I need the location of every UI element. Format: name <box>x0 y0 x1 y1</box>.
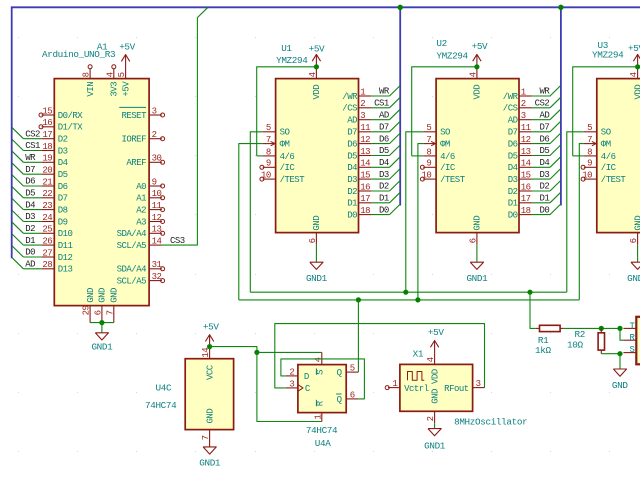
svg-text:D4: D4 <box>539 158 549 168</box>
pin 18 D3 of Arduino <box>42 150 55 152</box>
svg-text:GND1: GND1 <box>306 273 328 284</box>
pin 10 A1 of Arduino <box>149 197 162 199</box>
wire - net D2 from U2 pin 16 <box>532 190 550 192</box>
wire - net CS1 to Arduino pin 18 <box>23 150 41 152</box>
bus entry for net D2 at U2 <box>550 181 561 192</box>
svg-text:D2: D2 <box>539 182 549 192</box>
pin 4 Sbar preset of U4A <box>321 352 323 364</box>
svg-text:CS1: CS1 <box>25 141 40 151</box>
junction - output T node <box>617 326 622 331</box>
pin 1 /WR of U2 <box>519 95 532 97</box>
svg-text:D3: D3 <box>58 146 68 156</box>
bus - vertical bus between U1 and U2 <box>399 7 401 205</box>
svg-text:3: 3 <box>289 379 294 389</box>
svg-text:10: 10 <box>582 171 592 181</box>
svg-text:D6: D6 <box>508 140 518 150</box>
junction - +5V node at U3 <box>635 64 640 69</box>
svg-text:SCL/A5: SCL/A5 <box>117 241 147 251</box>
bus entry for net D4 at U1 <box>390 157 401 168</box>
svg-text:/WR: /WR <box>342 92 358 102</box>
wire - SO of U3 down to audio line <box>567 132 584 292</box>
pin 21 D6 of Arduino <box>42 185 55 187</box>
wire - SO of U1 down to audio line <box>250 132 262 292</box>
bus entry for net AD at U2 <box>550 109 561 120</box>
pin 6 Qbar of U4A <box>346 398 358 400</box>
svg-text:D9: D9 <box>58 217 68 227</box>
junction - R1 tap on audio line <box>527 290 532 295</box>
YMZ294 U1 body <box>276 79 359 233</box>
svg-text:8: 8 <box>82 72 92 77</box>
svg-text:3V3: 3V3 <box>110 82 120 97</box>
svg-text:7: 7 <box>105 310 115 315</box>
pin 22 D7 of Arduino <box>42 197 55 199</box>
svg-text:D6: D6 <box>347 140 357 150</box>
pin 27 D12 of Arduino <box>42 256 55 258</box>
svg-text:D2: D2 <box>58 135 68 145</box>
ground GND1 below U4C <box>203 447 216 454</box>
svg-text:2: 2 <box>426 416 436 421</box>
pin S sleeve of jack <box>623 352 636 354</box>
bus entry for net D6 <box>12 175 23 186</box>
pin 23 D8 of Arduino <box>42 209 55 211</box>
svg-text:18: 18 <box>521 206 531 216</box>
svg-text:30: 30 <box>152 154 162 164</box>
svg-text:CS2: CS2 <box>535 99 550 109</box>
svg-text:D10: D10 <box>58 229 73 239</box>
svg-text:29: 29 <box>82 305 92 315</box>
svg-text:3: 3 <box>521 111 526 121</box>
svg-text:13: 13 <box>521 147 531 157</box>
bus entry for net AD at U1 <box>390 109 401 120</box>
+5V power symbol at U3 VDD <box>637 54 639 66</box>
svg-text:18: 18 <box>360 206 370 216</box>
wire - R2 bottom to sleeve node <box>601 353 620 355</box>
svg-text:16: 16 <box>521 182 531 192</box>
svg-text:D13: D13 <box>58 265 73 275</box>
svg-text:GND: GND <box>633 216 640 231</box>
wire - Arduino GND to ground symbol <box>101 323 103 333</box>
svg-text:/IC: /IC <box>440 163 456 173</box>
svg-text:D0/RX: D0/RX <box>58 111 84 121</box>
wire - net D0 from U2 pin 18 <box>532 214 550 216</box>
svg-text:1: 1 <box>360 87 365 97</box>
svg-text:GND: GND <box>312 216 322 231</box>
wire - net D2 from U1 pin 16 <box>371 190 389 192</box>
pin 12 D6 of U2 <box>519 143 532 145</box>
svg-text:2: 2 <box>289 367 294 377</box>
svg-text:D3: D3 <box>379 170 389 180</box>
svg-text:YMZ294: YMZ294 <box>276 55 308 66</box>
pin 4 VDD of U2 <box>476 67 478 79</box>
pin 8 4/6 of U3 <box>584 155 597 157</box>
bus entry for net D3 at U2 <box>550 169 561 180</box>
bus entry for net D2 at U1 <box>390 181 401 192</box>
svg-text:X1: X1 <box>413 348 424 359</box>
wire - net AD from U1 pin 3 <box>371 119 389 121</box>
pin 18 D0 of U2 <box>519 214 532 216</box>
svg-text:D7: D7 <box>379 123 389 133</box>
wire - Arduino GND pins tied together <box>90 322 114 324</box>
svg-text:ΦM: ΦM <box>440 140 450 150</box>
svg-text:D2: D2 <box>508 187 518 197</box>
svg-text:21: 21 <box>42 177 52 187</box>
svg-text:7: 7 <box>201 435 211 440</box>
svg-text:74HC74: 74HC74 <box>145 400 177 411</box>
svg-text:9: 9 <box>152 177 157 187</box>
bus entry for net D0 at U1 <box>390 204 401 215</box>
svg-text:AREF: AREF <box>126 158 146 168</box>
pin 5 +5V <box>125 67 127 79</box>
svg-text:6: 6 <box>308 238 318 243</box>
pin 10 /TEST of U2 <box>423 178 436 180</box>
svg-text:/CS: /CS <box>503 104 518 114</box>
svg-text:24: 24 <box>42 213 52 223</box>
svg-text:15: 15 <box>521 171 531 181</box>
wire - net D0 to Arduino pin 27 <box>23 256 41 258</box>
svg-text:GND: GND <box>612 380 628 391</box>
svg-text:GND: GND <box>473 216 483 231</box>
ground GND1 below Arduino <box>95 333 108 340</box>
wire - net D1 from U2 pin 17 <box>532 202 550 204</box>
svg-text:4/6: 4/6 <box>601 152 616 162</box>
svg-text:AD: AD <box>347 116 357 126</box>
wire - output node to jack R pin <box>620 328 623 340</box>
bus entry for net D7 at U2 <box>550 121 561 132</box>
svg-text:A0: A0 <box>136 182 146 192</box>
pin 4 VDD of X1 <box>434 353 436 365</box>
junction - +5V node at U2 <box>474 64 479 69</box>
wire - net D6 from U1 pin 12 <box>371 143 389 145</box>
svg-text:D5: D5 <box>379 146 389 156</box>
U4C 74HC74 body <box>185 359 233 430</box>
pin 7 GND of U4C <box>209 430 211 447</box>
svg-text:18: 18 <box>42 142 52 152</box>
bus entry for net D5 at U1 <box>390 145 401 156</box>
pin 11 D7 of U1 <box>359 131 372 133</box>
svg-text:D4: D4 <box>379 158 389 168</box>
svg-text:AD: AD <box>25 260 35 270</box>
pin 3 RFout of X1 <box>473 387 485 389</box>
svg-text:D: D <box>304 372 309 382</box>
svg-text:20: 20 <box>42 166 52 176</box>
bus entry for net D3 <box>12 211 23 222</box>
svg-text:GND: GND <box>86 288 96 303</box>
svg-text:3: 3 <box>360 111 365 121</box>
wire - sleeve node to ground symbol <box>619 354 621 369</box>
svg-text:SO: SO <box>601 128 611 138</box>
bus entry for net AD <box>12 258 23 269</box>
svg-text:D4: D4 <box>347 163 357 173</box>
pin 14 VCC of U4C <box>209 347 211 359</box>
svg-text:10: 10 <box>421 171 431 181</box>
svg-text:16: 16 <box>42 118 52 128</box>
pin 13 D5 of U1 <box>359 155 372 157</box>
svg-text:7: 7 <box>587 135 592 145</box>
svg-text:7: 7 <box>426 135 431 145</box>
wire - net D3 from U2 pin 15 <box>532 178 550 180</box>
svg-text:S: S <box>316 370 326 375</box>
svg-text:D0: D0 <box>379 205 389 215</box>
wire - net D5 from U2 pin 13 <box>532 155 550 157</box>
svg-text:/TEST: /TEST <box>280 175 306 185</box>
svg-text:5: 5 <box>426 123 431 133</box>
svg-text:D1/TX: D1/TX <box>58 123 84 133</box>
bus entry for net D4 at U2 <box>550 157 561 168</box>
resistor R2 <box>600 328 602 332</box>
svg-text:25: 25 <box>42 225 52 235</box>
bus entry for net D1 at U1 <box>390 192 401 203</box>
Arduino A1 body <box>54 79 149 306</box>
junction - +5V branch node <box>254 350 259 355</box>
svg-text:7: 7 <box>266 135 271 145</box>
svg-text:D7: D7 <box>347 128 357 138</box>
wire - PhiM clock of U3 <box>579 144 584 300</box>
pin 10 /TEST of U3 <box>584 178 597 180</box>
svg-text:RESET: RESET <box>121 111 147 121</box>
svg-text:D0: D0 <box>25 248 35 258</box>
junction - U2 SO on audio line <box>403 290 408 295</box>
svg-text:D3: D3 <box>25 212 35 222</box>
svg-text:6: 6 <box>350 390 355 400</box>
svg-text:GND: GND <box>205 409 215 424</box>
svg-text:10: 10 <box>152 189 162 199</box>
wire - net CS2 from U2 pin 2 <box>532 107 550 109</box>
svg-text:15: 15 <box>42 106 52 116</box>
pin 11 D7 of U2 <box>519 131 532 133</box>
pin 8 4/6 of U1 <box>263 155 276 157</box>
wire - U3 GND pin to ground <box>637 245 639 262</box>
svg-text:D6: D6 <box>539 134 549 144</box>
svg-text:32: 32 <box>152 272 162 282</box>
svg-text:5: 5 <box>266 123 271 133</box>
svg-text:SO: SO <box>280 128 290 138</box>
wire - net D4 from U2 pin 14 <box>532 166 550 168</box>
svg-text:D5: D5 <box>508 151 518 161</box>
pin 8 4/6 of U2 <box>423 155 436 157</box>
wire - audio sum line (SO bus) U1..U3 <box>250 291 567 293</box>
pin 2 GND of X1 <box>434 411 436 423</box>
svg-text:SO: SO <box>440 128 450 138</box>
svg-text:Arduino_UNO_R3: Arduino_UNO_R3 <box>42 49 115 60</box>
pin 12 D6 of U1 <box>359 143 372 145</box>
svg-text:15: 15 <box>360 171 370 181</box>
svg-text:GND: GND <box>430 389 440 404</box>
svg-text:A1: A1 <box>136 194 146 204</box>
svg-text:2: 2 <box>521 99 526 109</box>
YMZ294 U3 body <box>597 79 640 233</box>
svg-text:+5V: +5V <box>309 44 325 55</box>
svg-text:+5V: +5V <box>121 81 131 97</box>
svg-text:D1: D1 <box>539 194 549 204</box>
junction - U4A Q to clock line <box>356 297 361 302</box>
bus entry for net CS1 at U1 <box>390 97 401 108</box>
wire - net D6 from U2 pin 12 <box>532 143 550 145</box>
pin 3 AD of U1 <box>359 119 372 121</box>
svg-text:D2: D2 <box>25 224 35 234</box>
svg-text:4: 4 <box>468 72 478 77</box>
svg-text:19: 19 <box>42 154 52 164</box>
bus entry for net D5 <box>12 187 23 198</box>
wire - net CS1 from U1 pin 2 <box>371 107 389 109</box>
svg-text:U2: U2 <box>436 38 446 49</box>
svg-text:12: 12 <box>521 135 531 145</box>
svg-text:D1: D1 <box>508 199 518 209</box>
junction - U2 PhiM on clock line <box>415 297 420 302</box>
pin 9 /IC of U1 <box>263 166 276 168</box>
pin 6 GND of U2 <box>476 233 478 245</box>
wire - net WR from U2 pin 1 <box>532 95 550 97</box>
wire - X1 GND pin to ground <box>434 423 436 428</box>
svg-text:5: 5 <box>350 364 355 374</box>
svg-text:10: 10 <box>261 171 271 181</box>
svg-text:D5: D5 <box>347 151 357 161</box>
svg-text:/IC: /IC <box>280 163 296 173</box>
pin 5 SO of U1 <box>263 131 276 133</box>
pin 30 AREF of Arduino <box>149 161 162 163</box>
pin 14 D4 of U2 <box>519 166 532 168</box>
svg-text:27: 27 <box>42 248 52 258</box>
svg-text:+5V: +5V <box>472 41 488 52</box>
svg-text:Q: Q <box>337 395 342 405</box>
pin 11 A2 of Arduino <box>149 209 162 211</box>
svg-text:GND: GND <box>110 288 120 303</box>
svg-text:13: 13 <box>152 225 162 235</box>
svg-text:16: 16 <box>360 182 370 192</box>
pin 1 /WR of U1 <box>359 95 372 97</box>
svg-text:6: 6 <box>629 238 639 243</box>
YMZ294 U2 body <box>436 79 519 233</box>
wire - clock line (PhiM) U1..U3 <box>239 299 580 301</box>
bus entry for net D2 <box>12 222 23 233</box>
svg-text:9: 9 <box>426 159 431 169</box>
svg-text:17: 17 <box>42 130 52 140</box>
bus junction at top of U2/U3 bus <box>558 5 563 10</box>
svg-text:VDD: VDD <box>312 85 322 100</box>
wire - +5V to U4A preset pin 4 <box>257 351 322 353</box>
svg-text:WR: WR <box>25 153 36 163</box>
svg-text:D4: D4 <box>58 158 68 168</box>
svg-text:D6: D6 <box>379 134 389 144</box>
pin 2 /CS of U1 <box>359 107 372 109</box>
svg-text:GND: GND <box>98 288 108 303</box>
pin 7 GND of Arduino <box>113 306 115 323</box>
pin 2 D of U4A <box>286 375 298 377</box>
svg-text:74HC74: 74HC74 <box>306 425 338 436</box>
svg-text:31: 31 <box>152 260 162 270</box>
svg-text:11: 11 <box>152 201 162 211</box>
bus entry for net WR at U2 <box>550 86 561 97</box>
wire - net D6 to Arduino pin 21 <box>23 185 41 187</box>
wire - net D4 from U1 pin 14 <box>371 166 389 168</box>
svg-text:/WR: /WR <box>503 92 519 102</box>
wire - net D1 from U1 pin 17 <box>371 202 389 204</box>
+5V power symbol at X1 <box>434 341 436 353</box>
pin 5 SO of U3 <box>584 131 597 133</box>
svg-text:4: 4 <box>629 72 639 77</box>
bus entry for net D4 <box>12 199 23 210</box>
svg-text:VDD: VDD <box>430 369 440 384</box>
svg-text:/TEST: /TEST <box>601 175 627 185</box>
pin 15 D0/RX of Arduino <box>42 114 55 116</box>
pin T tip of jack <box>623 327 636 329</box>
svg-text:D12: D12 <box>58 253 73 263</box>
pin 8 VIN (unconnected) <box>89 69 91 79</box>
bus entry for net D0 <box>12 246 23 257</box>
svg-text:5: 5 <box>587 123 592 133</box>
svg-text:WR: WR <box>379 87 390 97</box>
svg-text:9: 9 <box>587 159 592 169</box>
svg-text:VDD: VDD <box>633 85 640 100</box>
pin 1 Vctrl of X1 (unconnected) <box>388 387 400 389</box>
svg-text:RFout: RFout <box>444 384 469 394</box>
svg-text:3: 3 <box>152 106 157 116</box>
wire - net D3 from U1 pin 15 <box>371 178 389 180</box>
svg-text:AD: AD <box>539 110 549 120</box>
svg-text:6: 6 <box>468 238 478 243</box>
wire - net D0 from U1 pin 18 <box>371 214 389 216</box>
svg-text:23: 23 <box>42 201 52 211</box>
svg-text:D6: D6 <box>58 182 68 192</box>
junction - R2 top node <box>599 326 604 331</box>
wire - PhiM clock of U1 <box>239 144 263 300</box>
bus entry for net D3 at U1 <box>390 169 401 180</box>
bus entry for net D1 <box>12 234 23 245</box>
svg-text:VCC: VCC <box>205 364 215 380</box>
svg-text:4/6: 4/6 <box>280 152 295 162</box>
svg-text:SDA/A4: SDA/A4 <box>117 229 147 239</box>
pin 13 D5 of U2 <box>519 155 532 157</box>
pin 9 A0 of Arduino <box>149 185 162 187</box>
svg-text:D5: D5 <box>25 189 35 199</box>
svg-text:11: 11 <box>521 123 531 133</box>
svg-text:S: S <box>629 345 634 355</box>
svg-text:+5V: +5V <box>428 327 444 338</box>
junction - +5V node at U4C <box>207 344 212 349</box>
wire - net AD to Arduino pin 28 <box>23 268 41 270</box>
wire - +5V rail to U4A set/reset <box>210 347 257 353</box>
svg-text:D1: D1 <box>25 236 35 246</box>
svg-text:1kΩ: 1kΩ <box>535 345 551 356</box>
svg-text:14: 14 <box>521 159 531 169</box>
svg-text:1: 1 <box>313 415 323 420</box>
svg-text:8: 8 <box>426 147 431 157</box>
pin 9 /IC of U2 <box>423 166 436 168</box>
wire - net D1 to Arduino pin 26 <box>23 244 41 246</box>
+5V power symbol at U2 VDD <box>476 54 478 66</box>
svg-text:4: 4 <box>426 357 436 362</box>
svg-text:8: 8 <box>266 147 271 157</box>
bus entry for net WR at U1 <box>390 86 401 97</box>
svg-text:+5V: +5V <box>203 321 219 332</box>
wire - 4/6 select of U1 to +5V <box>257 155 263 157</box>
pin 29 GND of Arduino <box>89 306 91 323</box>
pin 2 /CS of U2 <box>519 107 532 109</box>
svg-text:6: 6 <box>93 310 103 315</box>
svg-text:Q: Q <box>337 368 342 378</box>
svg-text:GND1: GND1 <box>91 342 113 353</box>
svg-text:D2: D2 <box>347 187 357 197</box>
pin 18 D0 of U1 <box>359 214 372 216</box>
pin 17 D1 of U1 <box>359 202 372 204</box>
pin 13 SDA/A4 of Arduino <box>149 232 162 234</box>
wire - +5V feed of U3 <box>573 67 638 156</box>
svg-text:Vctrl: Vctrl <box>404 384 429 394</box>
ground GND1 below U1 <box>310 262 323 269</box>
svg-text:D3: D3 <box>347 175 357 185</box>
wire - net WR from U1 pin 1 <box>371 95 389 97</box>
bus entry for net D6 at U2 <box>550 133 561 144</box>
svg-text:U4C: U4C <box>156 382 172 393</box>
